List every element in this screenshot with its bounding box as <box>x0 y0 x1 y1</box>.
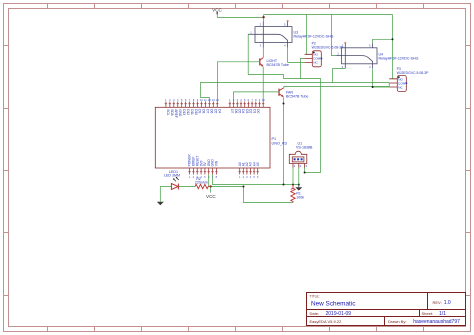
svg-text:BC547B Tube: BC547B Tube <box>286 95 308 99</box>
svg-text:D5: D5 <box>214 109 218 113</box>
wire FAN collector to P3 COM <box>284 83 389 88</box>
wire IR pin3 jog <box>304 168 306 173</box>
svg-text:D0: D0 <box>256 109 260 113</box>
svg-text:Date:: Date: <box>310 311 320 316</box>
svg-text:VIN: VIN <box>215 160 219 166</box>
svg-text:NC: NC <box>313 61 318 65</box>
UNO bottom-right pin header <box>239 168 259 175</box>
svg-text:D7: D7 <box>206 109 210 113</box>
svg-text:WJ2EDGVC-5.08-3P: WJ2EDGVC-5.08-3P <box>312 45 345 49</box>
IR receiver U1 <box>289 151 307 167</box>
wire rail to relay U4 pin1 <box>332 15 337 56</box>
node dot on emitter wire <box>283 103 285 105</box>
UNO top-left pin header <box>165 102 219 108</box>
svg-text:D1: D1 <box>252 109 256 113</box>
svg-text:D13: D13 <box>182 109 186 115</box>
wire rail to P2 NO <box>307 15 313 55</box>
svg-text:New Schematic: New Schematic <box>311 301 356 308</box>
resistor R2 <box>195 184 208 188</box>
node junction pin4/collector wire <box>372 86 374 88</box>
svg-text:haseenanaushad797: haseenanaushad797 <box>413 319 460 325</box>
svg-text:Sheet:: Sheet: <box>422 311 434 316</box>
svg-text:BC547B Tube: BC547B Tube <box>267 63 289 67</box>
ground at IR <box>295 185 302 191</box>
wire UNO GND pin down to signal wire <box>213 175 299 185</box>
svg-text:220ohm: 220ohm <box>195 181 208 185</box>
wire IR pin2 to gnd point <box>298 168 300 185</box>
svg-text:D12: D12 <box>186 109 190 115</box>
svg-text:SDA: SDA <box>170 109 174 116</box>
svg-text:D9: D9 <box>198 109 202 113</box>
wire P2 COM branch to IR pin3 <box>301 79 321 173</box>
wire U3 pin1 to P2 COM (stair) <box>248 34 304 78</box>
node junction rail-branch <box>392 38 394 40</box>
node junction rail/U3 <box>262 16 264 18</box>
net VCC flag (bottom) <box>206 187 216 199</box>
wire rail to relay U3 pin2 <box>263 15 265 22</box>
wire rail down right side to P3 NO <box>393 15 398 79</box>
svg-text:A5: A5 <box>256 162 260 166</box>
svg-text:EasyEDA V5.9.22: EasyEDA V5.9.22 <box>310 319 343 324</box>
svg-text:D7: D7 <box>230 109 234 113</box>
wire U3 pin4 to P2 NC <box>288 48 305 63</box>
svg-text:D4: D4 <box>241 109 245 113</box>
wire IR pin1 to signal wire <box>292 168 294 185</box>
svg-text:D6: D6 <box>234 109 238 113</box>
svg-text:UNO_R3: UNO_R3 <box>272 142 287 146</box>
wire relay U4 pin4 down to P3 NC <box>373 69 390 88</box>
MCU UNO P1 <box>155 107 270 168</box>
connector P2 <box>305 51 323 67</box>
svg-text:1.0: 1.0 <box>444 300 451 306</box>
transistor FAN Q <box>279 88 284 97</box>
net VCC flag (top) <box>212 7 222 17</box>
UNO bottom-left pin header <box>188 168 217 175</box>
svg-text:SCL: SCL <box>166 109 170 115</box>
node junction VCC wire <box>243 186 245 188</box>
svg-text:2019-01-09: 2019-01-09 <box>326 311 352 317</box>
UNO top-right pin header <box>229 102 265 108</box>
svg-text:100k: 100k <box>296 196 304 200</box>
svg-text:VCC: VCC <box>206 194 216 199</box>
svg-text:D10: D10 <box>194 109 198 115</box>
svg-text:D11: D11 <box>190 109 194 115</box>
resistor R1 <box>291 185 295 203</box>
wire relay U4 pin3 down to long wire <box>333 69 346 83</box>
wire UNO D8 to P3 COM (long) <box>201 83 390 102</box>
svg-text:Drawn By:: Drawn By: <box>388 319 406 324</box>
wire VCC junction to R1 bottom <box>211 187 293 203</box>
svg-text:1/1: 1/1 <box>439 311 446 317</box>
svg-text:VS-1838B: VS-1838B <box>296 145 313 149</box>
svg-text:LED 3MM: LED 3MM <box>164 174 180 178</box>
wire FAN emitter down to GND wire <box>283 97 285 184</box>
svg-text:D6: D6 <box>210 109 214 113</box>
svg-text:RelayHF3F-12VDC-SHG: RelayHF3F-12VDC-SHG <box>294 35 334 39</box>
relay U3 <box>248 22 292 48</box>
wire branch to relay U4 pin5 <box>373 39 393 43</box>
wire U3 pin3 to LIGHT collector <box>262 48 264 58</box>
svg-text:D8: D8 <box>202 109 206 113</box>
wire FAN base to UNO D-pin <box>234 92 280 102</box>
wire LIGHT base to UNO D-pin <box>218 62 260 102</box>
svg-text:AREF: AREF <box>174 109 178 118</box>
connector P3 <box>389 76 407 92</box>
relay U4 <box>337 43 378 68</box>
LED LED1 <box>171 184 178 190</box>
svg-text:P1: P1 <box>272 137 277 141</box>
transistor LIGHT Q <box>260 58 264 67</box>
ground at LED <box>157 202 164 205</box>
svg-text:VCC: VCC <box>212 7 222 12</box>
svg-text:D5: D5 <box>238 109 242 113</box>
title block <box>307 293 466 326</box>
node dot IR pin3 <box>304 172 306 174</box>
node junction at R2 <box>209 185 211 187</box>
svg-text:D4: D4 <box>217 109 221 113</box>
svg-text:NC: NC <box>398 85 403 89</box>
svg-text:REV:: REV: <box>433 300 442 305</box>
svg-text:RelayHF3F-12VDC-SHG: RelayHF3F-12VDC-SHG <box>379 57 419 61</box>
svg-text:D2: D2 <box>249 109 253 113</box>
wire LED anode left + ground <box>160 187 171 202</box>
wire LED cathode to R2 <box>178 186 195 188</box>
svg-text:GND: GND <box>178 109 182 117</box>
svg-text:TITLE:: TITLE: <box>310 295 320 299</box>
wire LIGHT emitter down to UNO D0 <box>262 67 264 102</box>
node dots on signal wire <box>283 184 285 186</box>
wire UNO 5V pin down to VCC junction <box>208 175 210 187</box>
wire VCC rail <box>217 17 263 19</box>
svg-text:WJ2EDGVC-5.08-3P: WJ2EDGVC-5.08-3P <box>397 71 430 75</box>
svg-text:D3: D3 <box>245 109 249 113</box>
